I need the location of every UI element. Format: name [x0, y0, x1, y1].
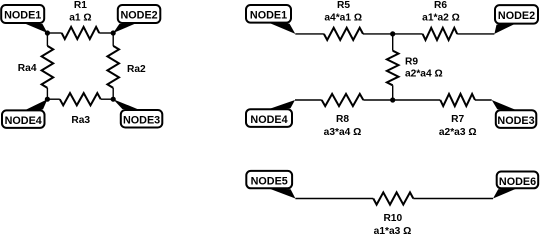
svg-text:NODE4: NODE4 — [5, 115, 42, 127]
svg-text:R8: R8 — [336, 114, 349, 125]
svg-text:a1 Ω: a1 Ω — [69, 13, 91, 24]
svg-text:a1*a2 Ω: a1*a2 Ω — [422, 13, 460, 24]
svg-text:NODE1: NODE1 — [250, 10, 287, 22]
svg-text:NODE4: NODE4 — [250, 114, 287, 126]
svg-text:NODE5: NODE5 — [251, 176, 288, 188]
svg-text:Ra4: Ra4 — [18, 63, 37, 74]
svg-text:R7: R7 — [451, 114, 464, 125]
svg-text:NODE2: NODE2 — [498, 10, 535, 22]
svg-text:NODE2: NODE2 — [120, 10, 157, 22]
svg-text:R6: R6 — [434, 0, 447, 11]
svg-text:a4*a1 Ω: a4*a1 Ω — [324, 13, 362, 24]
svg-text:Ra2: Ra2 — [127, 64, 146, 75]
svg-text:NODE1: NODE1 — [4, 10, 41, 22]
svg-text:NODE3: NODE3 — [497, 115, 534, 127]
svg-text:R10: R10 — [383, 213, 402, 224]
svg-text:a2*a3 Ω: a2*a3 Ω — [439, 127, 477, 138]
svg-text:a3*a4 Ω: a3*a4 Ω — [324, 127, 362, 138]
svg-text:R5: R5 — [337, 0, 350, 11]
svg-text:a2*a4 Ω: a2*a4 Ω — [405, 69, 443, 80]
svg-text:a1*a3 Ω: a1*a3 Ω — [374, 226, 412, 234]
svg-text:R9: R9 — [405, 56, 418, 67]
svg-text:R1: R1 — [74, 0, 87, 11]
svg-text:NODE6: NODE6 — [499, 176, 536, 188]
svg-text:NODE3: NODE3 — [123, 115, 160, 127]
svg-text:Ra3: Ra3 — [71, 115, 90, 126]
